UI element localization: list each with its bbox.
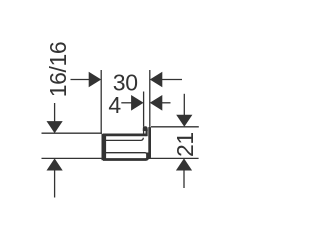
svg-text:16/16: 16/16 (45, 42, 71, 98)
svg-text:21: 21 (172, 132, 198, 157)
svg-text:4: 4 (108, 92, 121, 118)
